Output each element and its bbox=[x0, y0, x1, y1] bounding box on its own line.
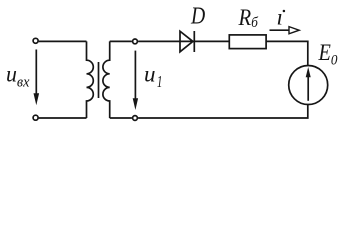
terminal: input top bbox=[33, 38, 38, 43]
arrow u_vx bbox=[34, 50, 40, 106]
node: secondary bottom bbox=[133, 116, 138, 121]
wire: top main (node to resistor) bbox=[138, 40, 229, 42]
wire: input bottom to primary bbox=[39, 117, 87, 119]
svg-text:1: 1 bbox=[157, 73, 163, 92]
node: secondary top bbox=[133, 39, 138, 44]
transformer primary winding bbox=[87, 41, 94, 118]
source E0 bbox=[289, 66, 328, 105]
wire: secondary bottom to node bbox=[110, 117, 132, 119]
svg-text:ı: ı bbox=[277, 4, 283, 29]
resistor Rb bbox=[229, 35, 266, 49]
svg-text:D: D bbox=[190, 2, 205, 29]
transformer secondary winding bbox=[103, 41, 110, 118]
wire: secondary top to node bbox=[110, 40, 132, 42]
wire: input top to primary bbox=[39, 40, 87, 42]
transformer core bbox=[98, 62, 100, 98]
current arrow i bbox=[270, 27, 300, 34]
diode D bbox=[180, 31, 194, 52]
arrow u1 bbox=[133, 51, 138, 110]
svg-text:u: u bbox=[144, 62, 156, 87]
terminal: input bottom bbox=[33, 115, 38, 120]
wire: source bottom to node bbox=[138, 104, 308, 118]
wire: resistor to source corner bbox=[266, 41, 308, 65]
